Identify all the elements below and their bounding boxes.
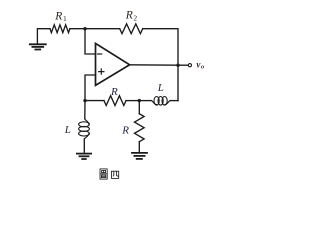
svg-text:1: 1 [63,14,67,23]
ground [132,153,147,159]
svg-text:R: R [110,86,118,98]
svg-text:2: 2 [133,13,137,22]
wire [138,142,140,152]
wire [178,64,188,66]
svg-text:o: o [201,64,205,71]
svg-text:R: R [54,10,62,22]
terminal vo [188,64,191,67]
wire [85,75,96,101]
node output [176,63,179,66]
svg-text:L: L [64,124,71,136]
resistor R bottom [135,114,145,142]
wire [84,101,86,119]
svg-text:R: R [125,10,133,22]
wire [85,100,104,102]
ground [77,154,91,159]
label R1 [54,10,67,23]
op-amp U1 [96,43,130,85]
node A [83,27,86,30]
ground [30,44,46,49]
label R2 [125,10,138,23]
caption 四 [112,171,119,178]
wire [85,29,96,54]
node B [83,99,86,102]
wire [37,29,50,44]
inductor L right [139,97,178,106]
label vo [196,60,205,71]
svg-text:R: R [121,124,129,136]
node C [138,99,141,102]
resistor R1 [50,25,70,33]
wire [130,64,178,66]
wire [138,101,140,114]
wire [143,29,178,65]
wire [177,65,179,100]
caption 圖 [100,169,107,179]
svg-text:L: L [157,82,164,94]
wire [70,28,85,30]
inductor L left [79,119,90,153]
resistor R middle [104,96,126,106]
resistor R2 [120,24,143,34]
wire [85,28,120,30]
wire [126,100,139,102]
